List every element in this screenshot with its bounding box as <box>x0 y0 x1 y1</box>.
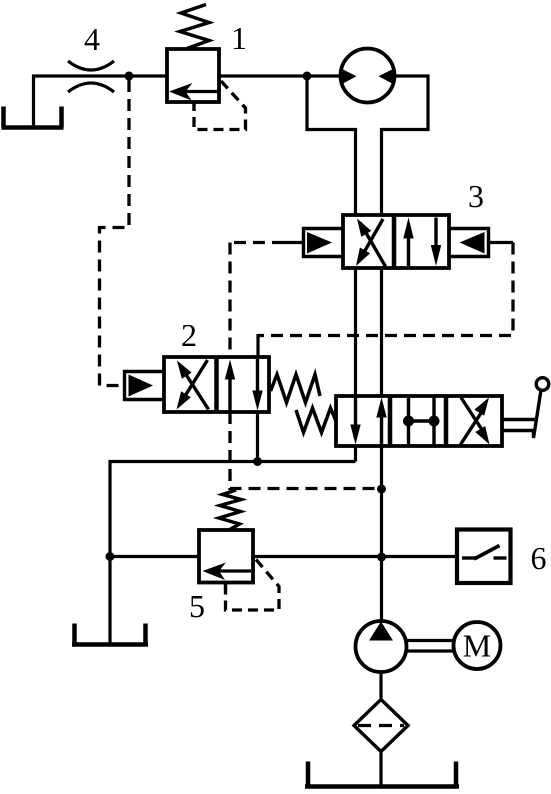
motor left triangle <box>341 69 357 85</box>
wire valve 3 B-port down <box>380 268 383 396</box>
spring of valve 1 <box>180 5 209 49</box>
directional valve 3 body <box>343 215 449 268</box>
tank T3 bottom <box>305 762 459 787</box>
pilot loop of valve 1 (dashed) <box>194 81 246 130</box>
solenoid of valve 2 <box>125 372 165 400</box>
wire pump to filter <box>379 672 382 699</box>
pressure switch 6 box <box>457 530 511 584</box>
svg-text:2: 2 <box>181 317 197 353</box>
flow arrow of valve 1 <box>178 90 218 93</box>
svg-text:5: 5 <box>189 588 205 624</box>
wire filter to tank T3 <box>379 752 382 788</box>
electric motor circle <box>454 622 501 669</box>
pilot valve 2 body <box>164 357 269 412</box>
wire valve 2 drain down <box>256 412 259 462</box>
valve 3 parallel arrows (right box) <box>407 235 410 266</box>
spring of manual valve (left side) <box>296 408 336 433</box>
wire valve 5 to pressure switch <box>253 555 457 558</box>
valve 5 bottom port stub <box>224 583 227 592</box>
wire tank line to relief valve 5 <box>110 555 199 558</box>
hydraulic motor circle <box>341 49 395 103</box>
node E junction (relief/switch line) <box>377 553 386 562</box>
main pressure line down <box>380 446 383 622</box>
pilot loop of valve 5 (dashed) <box>226 560 280 611</box>
wire tank T1 to throttle line <box>34 76 168 127</box>
node B junction <box>303 72 312 81</box>
node D junction (pilot tap) <box>377 485 386 494</box>
wire node B down to valve 3 port P1 <box>307 76 356 215</box>
valve 2 crossed arrows (left box) <box>181 366 209 410</box>
wire valve 1 to node B <box>219 74 341 77</box>
pilot line dashed left solenoid down to valve 2 <box>228 243 231 358</box>
svg-text:6: 6 <box>531 540 547 576</box>
manual valve divider 2 <box>444 396 449 446</box>
wire stub into valve 2 top port <box>256 334 259 357</box>
pilot operator left of valve 3 <box>304 229 344 257</box>
valve 2 divider <box>214 357 219 412</box>
spring of valve 5 <box>219 490 241 530</box>
wire from right pilot operator <box>489 241 514 244</box>
coupling shaft <box>407 641 454 652</box>
pilot line dashed to left operator <box>230 241 284 244</box>
manual valve centre box H-connection <box>407 396 410 446</box>
manual valve body <box>336 396 502 446</box>
relief valve 5 body <box>199 530 253 583</box>
tank T2 bottom-left <box>72 624 148 645</box>
motor right triangle <box>379 69 395 85</box>
throttle valve 4 (orifice arcs) <box>68 61 114 70</box>
node F junction (tank line) <box>106 552 115 561</box>
wire manual valve T-port down <box>354 446 357 462</box>
svg-text:4: 4 <box>84 21 100 57</box>
reducing valve 1 body <box>167 49 219 102</box>
valve 1 bottom port stub <box>192 102 195 111</box>
filter diamond <box>354 700 408 752</box>
lever of manual valve <box>502 418 536 421</box>
valve 3 divider <box>392 215 397 268</box>
wire valve 3 A-port down <box>354 268 357 396</box>
svg-text:1: 1 <box>231 20 247 56</box>
pump triangle <box>369 622 393 641</box>
pilot operator right of valve 3 <box>449 229 489 257</box>
manual valve divider 1 <box>388 396 393 446</box>
pilot line dashed valve 2 bottom to main line <box>230 412 382 489</box>
node C junction (drain) <box>253 457 262 466</box>
manual valve left box arrows <box>354 397 357 427</box>
pilot line (dashed) node A to valve 2 solenoid <box>100 80 130 386</box>
manual valve right box crossed arrows <box>461 410 484 445</box>
switch contacts <box>462 556 478 559</box>
pump circle <box>356 621 407 672</box>
svg-text:M: M <box>463 628 491 664</box>
svg-text:3: 3 <box>468 178 484 214</box>
spring of valve 2 (right side) <box>271 375 321 403</box>
wire to left pilot operator <box>284 241 304 244</box>
flow arrow of valve 5 <box>210 569 251 572</box>
tank T1 top-left <box>2 107 64 128</box>
return line to tank T2 <box>110 462 356 645</box>
wire motor right to valve 3 port P2 <box>382 76 429 215</box>
valve 2 parallel arrows (right box) <box>228 378 231 411</box>
pilot line dashed right loop down <box>258 243 513 336</box>
node A junction <box>125 72 134 81</box>
valve 3 crossed arrows (left box) <box>360 223 386 267</box>
